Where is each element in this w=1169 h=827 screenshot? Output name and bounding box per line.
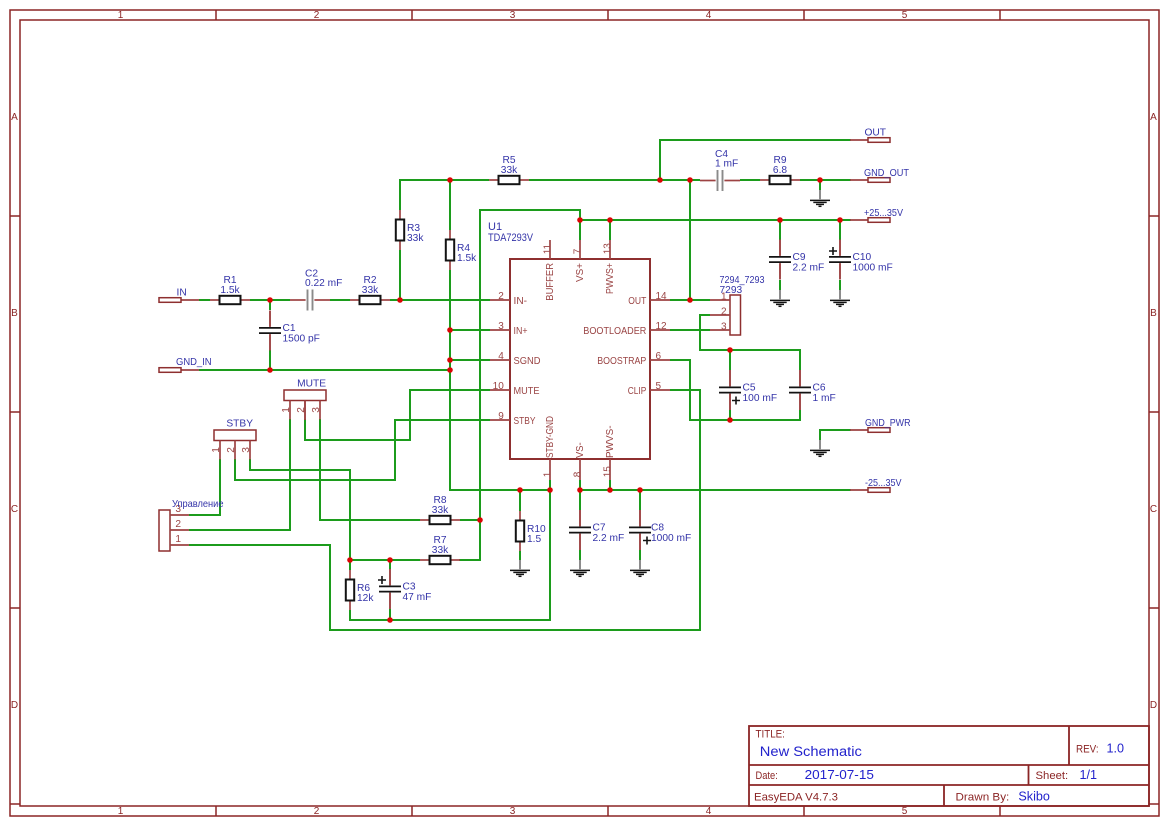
- connector P2 STBY: [211, 419, 256, 460]
- svg-text:IN+: IN+: [514, 325, 528, 337]
- wire BOOTSTRAP conn pin2 run: [700, 315, 800, 370]
- svg-text:0.22 mF: 0.22 mF: [305, 278, 342, 289]
- junction (400,300): [397, 297, 403, 303]
- ground under R10: [510, 560, 530, 576]
- wire R6 bottom corner: [350, 610, 391, 620]
- wire +25V rail: [579, 219, 851, 221]
- resistor R8 33k: [420, 495, 460, 524]
- wire OUT drop: [659, 139, 661, 181]
- svg-text:5: 5: [902, 806, 908, 817]
- junction (840,220): [837, 217, 843, 223]
- ground at GND_OUT: [810, 190, 830, 206]
- svg-text:PWVS-: PWVS-: [604, 425, 616, 458]
- svg-text:2: 2: [296, 407, 307, 413]
- wire GND_IN run: [199, 369, 451, 371]
- svg-text:REV:: REV:: [1076, 744, 1099, 756]
- net flag GND_OUT: [850, 168, 909, 182]
- svg-text:IN: IN: [177, 287, 187, 298]
- junction (820,180): [817, 177, 823, 183]
- svg-text:4: 4: [706, 10, 712, 21]
- wire R3 top: [399, 179, 401, 210]
- svg-text:SGND: SGND: [514, 355, 541, 367]
- junction (450,360): [447, 357, 453, 363]
- svg-text:GND_OUT: GND_OUT: [864, 168, 909, 179]
- svg-text:47 mF: 47 mF: [403, 592, 432, 603]
- capacitor C3 47 mF: [378, 569, 431, 609]
- svg-text:A: A: [1150, 112, 1157, 123]
- svg-text:4: 4: [706, 806, 712, 817]
- wire MUTE conn pin2 stub link: [304, 400, 306, 420]
- svg-text:Управление: Управление: [172, 499, 224, 510]
- wire R4 top: [449, 179, 451, 230]
- junction (730,350): [727, 347, 733, 353]
- resistor R10 1.5: [516, 511, 546, 551]
- connector P4 7294_7293: [710, 275, 765, 335]
- svg-text:1 mF: 1 mF: [715, 159, 738, 170]
- svg-text:New Schematic: New Schematic: [760, 744, 862, 760]
- svg-text:Drawn By:: Drawn By:: [956, 791, 1010, 803]
- net flag IN: [159, 287, 199, 302]
- junction (390,560): [387, 557, 393, 563]
- connector P1 MUTE: [281, 379, 326, 420]
- junction (480,520): [477, 517, 483, 523]
- wire U1 pin12 to conn pin3: [670, 329, 710, 331]
- ground under C7: [570, 560, 590, 576]
- capacitor C2 0.22 mF: [290, 269, 342, 311]
- junction (660,180): [657, 177, 663, 183]
- svg-text:MUTE: MUTE: [514, 385, 540, 397]
- svg-text:1: 1: [118, 806, 124, 817]
- resistor R9 6.8: [760, 155, 800, 184]
- wire R5 to C4: [529, 179, 700, 181]
- svg-text:2.2 mF: 2.2 mF: [793, 263, 825, 274]
- wire OUT run: [659, 139, 851, 141]
- wire C5 bottom link: [729, 410, 731, 421]
- svg-text:B: B: [1150, 308, 1157, 319]
- svg-text:STBY: STBY: [226, 419, 253, 430]
- junction (450,180): [447, 177, 453, 183]
- resistor R3 33k: [396, 210, 425, 250]
- svg-text:2: 2: [498, 291, 504, 302]
- capacitor C9 2.2 mF: [769, 240, 824, 280]
- wire U1 pin1 link: [549, 480, 551, 491]
- junction (580,220): [577, 217, 583, 223]
- wire bottom rail to -V: [389, 489, 550, 620]
- svg-text:OUT: OUT: [628, 295, 646, 307]
- junction (780,220): [777, 217, 783, 223]
- svg-text:7293: 7293: [720, 285, 743, 296]
- wire C9 drop: [779, 219, 781, 240]
- svg-text:1 mF: 1 mF: [813, 393, 836, 404]
- svg-text:5: 5: [902, 10, 908, 21]
- title block: [749, 726, 1149, 806]
- svg-text:VS+: VS+: [574, 263, 586, 282]
- net flag GND_PWR: [850, 418, 911, 432]
- junction (550,490): [547, 487, 553, 493]
- svg-text:Date:: Date:: [756, 770, 778, 782]
- svg-text:B: B: [11, 308, 18, 319]
- svg-text:2017-07-15: 2017-07-15: [805, 768, 874, 782]
- wire to U1 pin3: [449, 329, 490, 331]
- svg-text:2: 2: [226, 447, 237, 453]
- wire R2 to U1 pin2: [390, 299, 490, 301]
- svg-text:9: 9: [498, 411, 504, 422]
- svg-text:TDA7293V: TDA7293V: [488, 232, 534, 244]
- svg-text:C3: C3: [403, 582, 416, 593]
- wire PWVS+ link: [609, 219, 611, 240]
- wire buffer column x480: [479, 209, 481, 521]
- wire STBY conn pin3 to R6 node: [250, 459, 350, 561]
- svg-text:1: 1: [175, 534, 181, 545]
- svg-text:A: A: [11, 112, 18, 123]
- svg-text:1000 mF: 1000 mF: [853, 263, 893, 274]
- net flag GND_IN: [159, 357, 212, 373]
- svg-text:STBY-GND: STBY-GND: [544, 416, 556, 458]
- svg-text:3: 3: [510, 806, 516, 817]
- svg-text:GND_PWR: GND_PWR: [865, 418, 911, 429]
- svg-text:BUFFER: BUFFER: [544, 263, 556, 301]
- svg-text:4: 4: [498, 351, 504, 362]
- ground under C10: [830, 290, 850, 306]
- wire U1 pin14 to conn pin1: [670, 299, 710, 301]
- wire U1 pin15 link: [609, 480, 611, 491]
- wire R7 right up-link: [459, 519, 480, 560]
- wire C7 to ground: [579, 550, 581, 560]
- svg-text:1500 pF: 1500 pF: [283, 334, 320, 345]
- svg-text:1.0: 1.0: [1107, 742, 1125, 756]
- svg-text:C8: C8: [651, 523, 664, 534]
- junction (270,300): [267, 297, 273, 303]
- svg-text:2.2 mF: 2.2 mF: [593, 533, 625, 544]
- svg-text:14: 14: [656, 291, 668, 302]
- svg-text:C6: C6: [813, 383, 826, 394]
- svg-text:2: 2: [314, 10, 320, 21]
- svg-text:1: 1: [542, 471, 553, 477]
- wire C7 top link: [579, 489, 581, 510]
- svg-text:Skibo: Skibo: [1018, 789, 1050, 803]
- wire STBY pin9 run: [235, 420, 490, 480]
- resistor R5 33k: [489, 155, 529, 184]
- svg-text:VS-: VS-: [574, 442, 586, 458]
- wire GND_OUT ground link: [819, 179, 821, 190]
- svg-text:C10: C10: [853, 252, 872, 263]
- wire VS+ link: [579, 219, 581, 240]
- svg-text:12k: 12k: [357, 593, 374, 604]
- connector P3 Upravlenie (control): [159, 499, 224, 551]
- wire feedback rail left: [399, 179, 489, 181]
- junction (610,220): [607, 217, 613, 223]
- junction (390,620): [387, 617, 393, 623]
- svg-text:3: 3: [241, 447, 252, 453]
- ground at GND_PWR: [810, 440, 830, 456]
- svg-text:STBY: STBY: [514, 415, 536, 427]
- svg-text:7: 7: [572, 248, 583, 254]
- svg-text:2: 2: [721, 307, 727, 318]
- svg-text:15: 15: [602, 466, 613, 478]
- svg-text:EasyEDA V4.7.3: EasyEDA V4.7.3: [754, 791, 838, 803]
- wire C10 drop: [839, 219, 841, 240]
- wire -V rail: [578, 489, 851, 491]
- wire R1 to C2: [250, 299, 290, 301]
- svg-text:1: 1: [118, 10, 124, 21]
- wire node300 to C1 top: [269, 299, 271, 310]
- svg-text:33k: 33k: [407, 233, 424, 244]
- svg-text:2: 2: [314, 806, 320, 817]
- wire C5 top link: [729, 349, 731, 370]
- svg-text:PWVS+: PWVS+: [604, 263, 616, 294]
- wire C10 to ground: [839, 280, 841, 290]
- wire R7 left run: [349, 559, 420, 561]
- svg-text:3: 3: [721, 322, 727, 333]
- svg-text:8: 8: [572, 471, 583, 477]
- wire to U1 pin4: [449, 359, 490, 361]
- wire R8 right: [460, 519, 481, 521]
- wire STBY conn pin1 to CTRL pin3: [189, 459, 220, 515]
- wire GND_PWR: [820, 430, 851, 440]
- wire MUTE conn pin1 to CTRL pin2: [189, 419, 290, 530]
- wire U1 pin8 link: [579, 480, 581, 491]
- capacitor C1 1500 pF: [259, 311, 320, 351]
- capacitor C4 1 mF: [700, 149, 740, 191]
- junction (580,490): [577, 487, 583, 493]
- svg-text:13: 13: [602, 243, 613, 255]
- wire BOOSTRAP run: [670, 360, 800, 420]
- net flag -25...35V: [850, 478, 902, 492]
- svg-text:1.5k: 1.5k: [220, 285, 240, 296]
- svg-text:5: 5: [656, 381, 662, 392]
- svg-text:C7: C7: [593, 523, 606, 534]
- wire C3 bottom link: [389, 609, 391, 621]
- junction (350,560): [347, 557, 353, 563]
- svg-text:3: 3: [311, 407, 322, 413]
- capacitor C6 1 mF: [789, 370, 836, 410]
- svg-text:6.8: 6.8: [773, 165, 787, 176]
- svg-text:-25...35V: -25...35V: [865, 478, 902, 489]
- net flag +25...35V: [850, 208, 903, 222]
- svg-text:100 mF: 100 mF: [743, 393, 778, 404]
- svg-text:C5: C5: [743, 383, 756, 394]
- svg-text:GND_IN: GND_IN: [176, 357, 212, 368]
- svg-text:+25...35V: +25...35V: [864, 208, 903, 219]
- svg-text:BOOTLOADER: BOOTLOADER: [583, 325, 646, 337]
- wire C4 to R9: [740, 179, 760, 181]
- resistor R2 33k: [350, 275, 390, 304]
- wire C3 top link: [389, 559, 391, 569]
- capacitor C10 1000 mF: [829, 240, 893, 280]
- wire R6 top link: [349, 559, 351, 570]
- svg-text:OUT: OUT: [865, 128, 887, 139]
- junction (690,180): [687, 177, 693, 183]
- junction (730,420): [727, 417, 733, 423]
- svg-text:BOOSTRAP: BOOSTRAP: [597, 355, 646, 367]
- svg-text:33k: 33k: [432, 545, 449, 556]
- ground under C9: [770, 290, 790, 306]
- svg-text:33k: 33k: [362, 285, 379, 296]
- svg-text:MUTE: MUTE: [297, 379, 326, 390]
- svg-text:TITLE:: TITLE:: [756, 729, 785, 741]
- capacitor C8 1000 mF: [629, 510, 691, 550]
- svg-text:Sheet:: Sheet:: [1036, 770, 1069, 782]
- svg-text:33k: 33k: [501, 165, 518, 176]
- wire IN flag to R1: [199, 299, 210, 301]
- svg-text:C9: C9: [793, 252, 806, 263]
- capacitor C5 100 mF: [719, 370, 777, 410]
- resistor R6 12k: [346, 570, 375, 610]
- junction (640,490): [637, 487, 643, 493]
- svg-text:C1: C1: [283, 323, 296, 334]
- svg-text:11: 11: [542, 243, 553, 254]
- op-amp U1 TDA7293V: [488, 221, 670, 480]
- wire R9 to GND_OUT flag: [800, 179, 851, 181]
- ground under C8: [630, 560, 650, 576]
- junction (520,490): [517, 487, 523, 493]
- svg-text:1000 mF: 1000 mF: [651, 533, 691, 544]
- capacitor C7 2.2 mF: [569, 510, 624, 550]
- wire R3 bottom: [399, 250, 401, 301]
- wire feedback to OUT pin: [689, 179, 691, 301]
- wire R10 top link: [519, 489, 521, 511]
- wire C1 bottom to GND_IN net: [269, 350, 271, 371]
- resistor R7 33k: [420, 535, 460, 564]
- svg-text:1: 1: [281, 407, 292, 413]
- wire C2 to R2: [330, 299, 350, 301]
- svg-text:3: 3: [510, 10, 516, 21]
- svg-text:1.5: 1.5: [527, 534, 541, 545]
- junction (690,300): [687, 297, 693, 303]
- svg-text:C: C: [11, 504, 18, 515]
- wire MUTE pin10 run: [305, 390, 490, 440]
- resistor R1 1.5k: [210, 275, 250, 304]
- svg-text:D: D: [1150, 700, 1157, 711]
- svg-text:C: C: [1150, 504, 1157, 515]
- svg-text:33k: 33k: [432, 505, 449, 516]
- svg-text:6: 6: [656, 351, 662, 362]
- svg-text:IN-: IN-: [514, 295, 528, 307]
- wire R4 bottom down to GND_IN: [449, 270, 451, 371]
- svg-text:10: 10: [493, 381, 505, 392]
- svg-text:CLIP: CLIP: [628, 385, 647, 397]
- wire C9 to ground: [779, 280, 781, 290]
- svg-text:12: 12: [656, 321, 668, 332]
- wire R10 to ground: [519, 551, 521, 560]
- svg-text:2: 2: [175, 519, 181, 530]
- svg-text:1: 1: [211, 447, 222, 453]
- wire MUTE conn pin3 to R8: [320, 419, 420, 520]
- wire U1 top-left link: [479, 210, 580, 221]
- wire CLIP to CTRL pin1: [189, 390, 700, 630]
- junction (610,490): [607, 487, 613, 493]
- svg-text:D: D: [11, 700, 18, 711]
- junction (450,370): [447, 367, 453, 373]
- junction (270,370): [267, 367, 273, 373]
- svg-text:3: 3: [498, 321, 504, 332]
- junction (450,330): [447, 327, 453, 333]
- wire C8 top link: [639, 489, 641, 510]
- wire C8 to ground: [639, 550, 641, 560]
- svg-text:1/1: 1/1: [1080, 768, 1098, 782]
- net flag OUT: [850, 128, 890, 143]
- svg-text:1.5k: 1.5k: [457, 253, 477, 264]
- resistor R4 1.5k: [446, 230, 477, 270]
- wire SGND down to rail: [450, 369, 552, 490]
